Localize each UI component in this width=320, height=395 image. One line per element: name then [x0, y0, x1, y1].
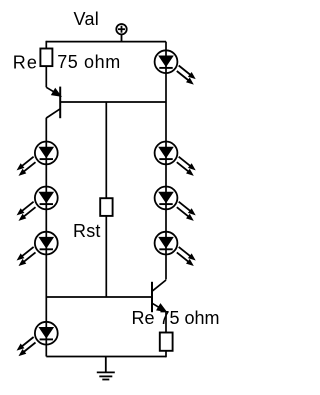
transistor Q1 (PNP)	[46, 87, 61, 119]
svg-text:75 ohm: 75 ohm	[57, 52, 121, 72]
wire Q1 base rail	[60, 101, 166, 103]
wire top rail	[46, 41, 166, 43]
LED D5 (right top)	[155, 50, 178, 73]
wire Q2 base rail	[46, 296, 152, 298]
resistor Rst	[100, 198, 112, 216]
power supply symbol +	[116, 24, 126, 42]
wire Re1 to Q1 emitter	[45, 66, 47, 87]
resistor Re2 (bottom, 75 ohm)	[160, 333, 173, 351]
wire Re2 to bottom rail	[165, 351, 167, 358]
LED D8 (right lower)	[155, 232, 178, 255]
emission arrows D2	[15, 199, 36, 217]
LED D7 (right middle)	[155, 187, 178, 210]
LED D3 (left lower)	[35, 232, 58, 255]
LED D1 (left top)	[35, 142, 58, 165]
wire left column	[45, 118, 47, 357]
transistor Q2 (NPN)	[152, 280, 167, 314]
wire bottom rail	[46, 356, 166, 358]
emission arrows D5	[177, 63, 198, 81]
svg-text:Re: Re	[13, 52, 38, 72]
LED D6 (right upper)	[155, 142, 178, 165]
emission arrows D1	[15, 154, 36, 172]
emission arrows D6	[177, 154, 198, 172]
svg-text:Val: Val	[74, 9, 100, 29]
wire Q2 emitter to Re2	[165, 311, 167, 332]
LED D4 (left bottom)	[35, 322, 58, 345]
wire rail to resistor Re1	[45, 41, 47, 49]
emission arrows D3	[15, 245, 36, 263]
wire middle column lower	[105, 216, 107, 297]
svg-text:Rst: Rst	[73, 221, 101, 241]
emission arrows D7	[177, 199, 198, 217]
ground	[97, 357, 115, 380]
wire middle column upper	[105, 102, 107, 198]
LED D2 (left middle)	[35, 187, 58, 210]
emission arrows D4	[15, 335, 36, 353]
emission arrows D8	[177, 245, 198, 263]
svg-text:Re 75 ohm: Re 75 ohm	[132, 308, 220, 328]
resistor Re (top, 75 ohm)	[40, 49, 52, 67]
wire right column	[165, 42, 167, 280]
